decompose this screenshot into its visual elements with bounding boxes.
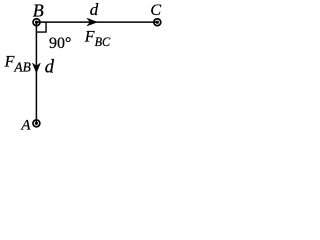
svg-text:90°: 90° [49,35,71,52]
svg-text:d: d [45,58,55,78]
arrowhead d toward A (F_AB direction) [33,63,41,73]
node A (circle with dot) [33,120,40,127]
node C (circle with dot) [154,19,161,26]
svg-text:C: C [150,2,161,19]
svg-text:d: d [90,0,99,19]
svg-text:A: A [20,118,31,134]
svg-text:B: B [33,0,44,20]
arrowhead d toward C (F_BC direction) [87,18,97,26]
wire B-A (vertical) [35,22,37,123]
wire B-C (horizontal) [37,21,158,23]
right-angle marker at B [36,22,46,32]
node B (circle with dot) [33,19,40,26]
